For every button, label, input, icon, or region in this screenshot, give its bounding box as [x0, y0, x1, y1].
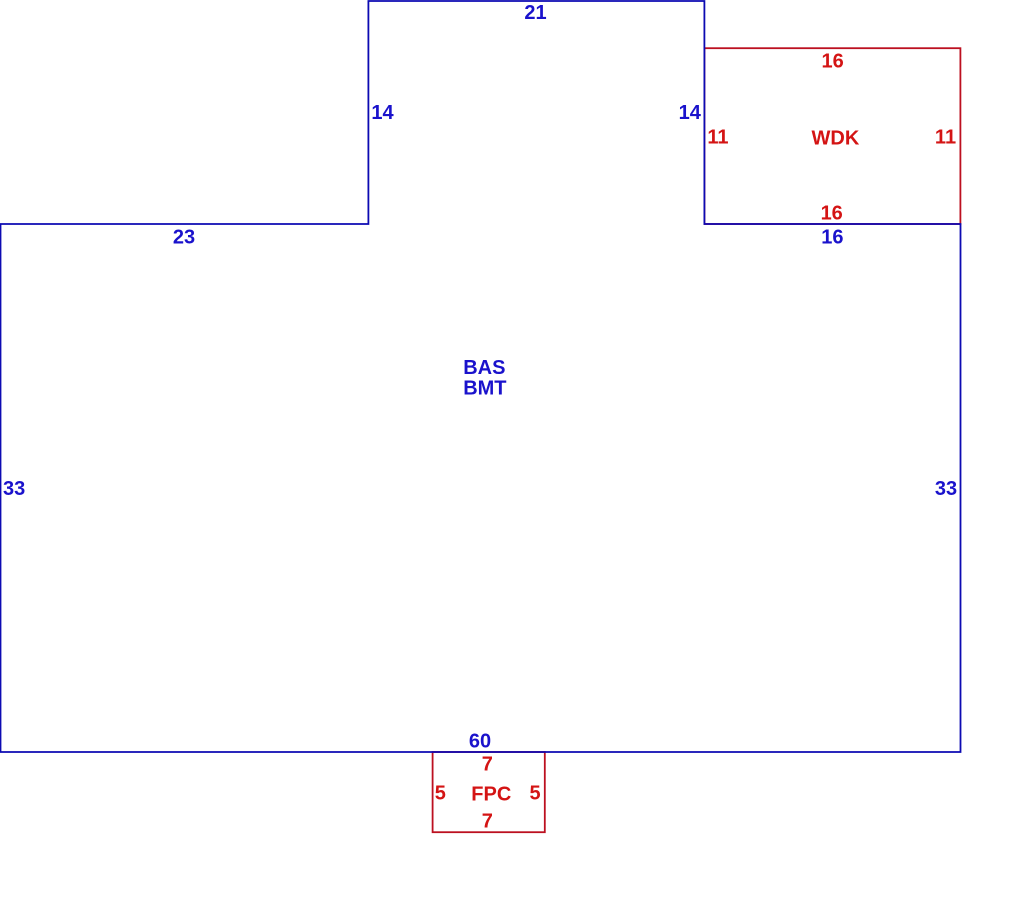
svg-text:7: 7 [482, 811, 493, 833]
svg-text:11: 11 [935, 126, 956, 148]
svg-text:11: 11 [707, 126, 728, 148]
svg-text:16: 16 [821, 203, 843, 225]
BAS/BMT basement area outline [1, 1, 961, 752]
WDK deck area outline [704, 48, 960, 224]
svg-text:16: 16 [821, 51, 843, 73]
svg-text:60: 60 [469, 731, 491, 753]
svg-text:WDK: WDK [812, 128, 860, 150]
svg-text:14: 14 [679, 102, 702, 124]
svg-text:7: 7 [482, 754, 493, 776]
FPC porch area outline [433, 752, 545, 832]
svg-text:FPC: FPC [471, 784, 511, 806]
svg-text:BAS: BAS [463, 357, 505, 379]
svg-text:5: 5 [529, 783, 540, 805]
svg-text:14: 14 [371, 102, 394, 124]
svg-text:16: 16 [821, 227, 843, 249]
svg-text:23: 23 [173, 227, 195, 249]
svg-text:BMT: BMT [463, 378, 506, 400]
svg-text:21: 21 [524, 2, 546, 24]
svg-text:5: 5 [435, 783, 446, 805]
svg-text:33: 33 [3, 478, 25, 500]
svg-text:33: 33 [935, 478, 957, 500]
